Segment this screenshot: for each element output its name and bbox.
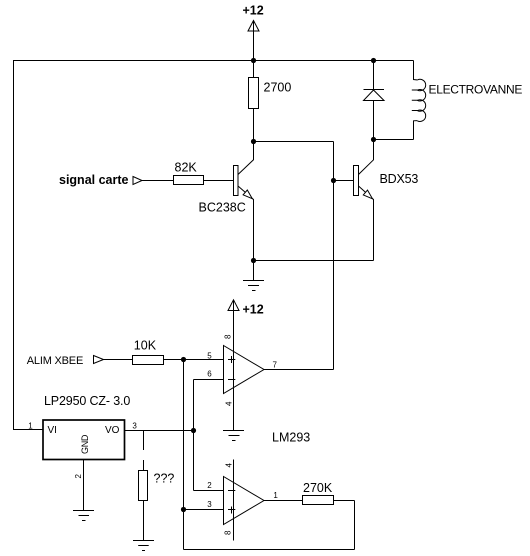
wire comparator 1 output bbox=[264, 369, 334, 371]
op-amp U1:B LM293 comparator 1 bbox=[224, 346, 265, 394]
wire plus input column bbox=[183, 360, 185, 550]
wire vertical base column (comparator output to BDX53 base) bbox=[333, 142, 335, 370]
wire stub VO to resistor ??? (with gap) bbox=[143, 431, 145, 471]
svg-text:2: 2 bbox=[74, 474, 83, 479]
ground below resistor ??? bbox=[133, 541, 154, 551]
inductor L1 electrovanne coil bbox=[414, 61, 418, 81]
wire emitter rail bbox=[254, 260, 374, 262]
svg-text:3: 3 bbox=[207, 500, 212, 509]
wire pin 3 bbox=[184, 509, 224, 511]
junction dot collector node Q1 bbox=[251, 139, 256, 144]
wire terminal through 10K to pin 5 bbox=[104, 359, 224, 361]
svg-text:???: ??? bbox=[154, 472, 175, 486]
svg-text:270K: 270K bbox=[303, 481, 333, 495]
transistor Q2 BDX53 bbox=[354, 166, 359, 196]
wire terminal to R 82K bbox=[142, 180, 174, 182]
power +12 symbol comparator 1 bbox=[228, 300, 239, 346]
svg-text:7: 7 bbox=[273, 361, 278, 370]
junction dot VO reference node bbox=[191, 428, 196, 433]
ground below LP2950 bbox=[73, 511, 94, 521]
power +12 symbol top bbox=[248, 21, 259, 61]
svg-text:+12: +12 bbox=[243, 303, 264, 317]
svg-text:LM293: LM293 bbox=[272, 431, 310, 445]
resistor 82K bbox=[174, 176, 204, 185]
svg-text:4: 4 bbox=[225, 463, 234, 468]
wire feedback bottom bbox=[184, 549, 355, 551]
svg-text:VO: VO bbox=[105, 425, 120, 436]
svg-text:3: 3 bbox=[132, 422, 137, 431]
svg-text:8: 8 bbox=[224, 530, 233, 535]
svg-text:BDX53: BDX53 bbox=[380, 172, 419, 186]
wire collector node to BDX53 base column bbox=[254, 141, 334, 143]
junction dot at 2700 / rail bbox=[251, 58, 256, 63]
svg-text:1: 1 bbox=[273, 491, 278, 500]
transistor Q1 BC238C bbox=[234, 166, 239, 196]
svg-text:8: 8 bbox=[224, 334, 233, 339]
svg-text:ELECTROVANNE: ELECTROVANNE bbox=[429, 83, 523, 97]
svg-text:5: 5 bbox=[207, 351, 212, 360]
junction dot pin 3 node bbox=[181, 507, 186, 512]
wire coil bottom bbox=[374, 139, 414, 141]
input terminal signal carte bbox=[133, 177, 142, 185]
wire VO to reference node bbox=[125, 430, 194, 432]
junction dot diode top bbox=[371, 58, 376, 63]
wire comparator 2 output bbox=[264, 500, 303, 502]
junction dot BDX53 base bbox=[331, 178, 336, 183]
resistor 270K bbox=[303, 496, 334, 505]
resistor ??? bbox=[139, 471, 148, 501]
svg-text:4: 4 bbox=[225, 401, 234, 406]
pin 4 wire to ground comparator 1 bbox=[233, 394, 235, 431]
svg-text:6: 6 bbox=[207, 370, 212, 379]
svg-text:GND: GND bbox=[80, 434, 90, 454]
resistor 10K bbox=[133, 356, 164, 365]
svg-text:2: 2 bbox=[207, 481, 212, 490]
svg-text:+12: +12 bbox=[243, 4, 264, 18]
wire LP2950 pin 2 down bbox=[83, 460, 85, 511]
svg-text:1: 1 bbox=[28, 422, 33, 431]
svg-text:2700: 2700 bbox=[264, 81, 292, 95]
svg-text:10K: 10K bbox=[134, 339, 157, 353]
svg-text:LP2950 CZ- 3.0: LP2950 CZ- 3.0 bbox=[44, 394, 130, 408]
junction dot pin 5 node bbox=[181, 357, 186, 362]
ground between comparators bbox=[223, 431, 244, 441]
svg-text:82K: 82K bbox=[175, 161, 198, 175]
wire 82K to Q1 base bbox=[204, 180, 234, 182]
voltage regulator U2 LP2950 CZ-3.0 bbox=[43, 420, 125, 460]
wire top +12 rail bbox=[13, 60, 414, 62]
svg-text:signal carte: signal carte bbox=[59, 173, 129, 187]
ground below Q1 emitter bbox=[243, 261, 264, 291]
diode D1 flyback bbox=[364, 61, 385, 140]
svg-text:BC238C: BC238C bbox=[199, 201, 246, 215]
op-amp U1:A LM293 comparator 2 bbox=[224, 477, 265, 525]
wire ??? resistor to ground bbox=[143, 501, 145, 541]
svg-text:ALIM XBEE: ALIM XBEE bbox=[27, 355, 83, 367]
wire left vertical from rail to LP2950 VI bbox=[13, 61, 43, 430]
input terminal ALIM XBEE bbox=[94, 356, 104, 364]
junction dot diode bottom / coil / collector bbox=[371, 137, 376, 142]
wire 270K to feedback corner bbox=[334, 501, 355, 550]
svg-text:VI: VI bbox=[48, 425, 57, 436]
junction dot emitter rail bbox=[251, 258, 256, 263]
wire pin 6 to pin 2 vertical bbox=[194, 380, 224, 491]
resistor 2700 bbox=[253, 61, 255, 142]
